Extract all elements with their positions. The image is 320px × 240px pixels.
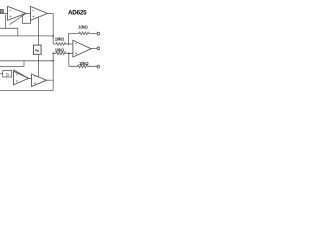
- terminal REF: [97, 65, 100, 68]
- terminal OUTPUT: [97, 47, 100, 50]
- bias box VB: [34, 45, 42, 54]
- wire reference riser: [68, 53, 70, 66]
- node junction dot A3 inverting: [68, 43, 70, 45]
- wire A3 output: [91, 48, 97, 50]
- resistor R3 10k sense feedback: [69, 32, 97, 35]
- wire vertical bus bottom: [52, 53, 54, 90]
- resistor input pin box bottom: [3, 71, 12, 78]
- terminal SENSE: [97, 32, 100, 35]
- wire input bottom: [0, 73, 3, 75]
- wire A1 to A2: [26, 12, 31, 14]
- wire B2 output: [47, 79, 54, 81]
- node junction dot top bus: [52, 35, 54, 37]
- buffer glyph in bottom box: [7, 73, 10, 76]
- node junction dot bus bottom wire: [52, 52, 54, 54]
- resistor R2 10k bottom input: [53, 52, 73, 55]
- node junction dot A3 noninverting: [68, 52, 70, 54]
- resistor R4 10k reference: [69, 65, 97, 68]
- svg-text:10kΩ: 10kΩ: [55, 47, 65, 52]
- node gain sense rail top: [0, 27, 18, 29]
- op-amp B1: [14, 71, 29, 85]
- op-amp input signs: [9, 11, 77, 84]
- op-amp A3: [73, 40, 91, 57]
- svg-text:VB: VB: [35, 49, 39, 53]
- svg-text:10kΩ: 10kΩ: [78, 25, 88, 30]
- node junction dot bottom bus: [52, 60, 54, 62]
- wire A1 inverting drop: [4, 15, 6, 29]
- wire A2 output to bus: [48, 14, 54, 45]
- wire feedback diagonal B1: [13, 70, 29, 79]
- wire VB riser bottom: [37, 54, 39, 76]
- wire feedback riser A3: [68, 33, 70, 44]
- op-amp A1: [8, 6, 26, 20]
- op-amp B2: [32, 74, 47, 87]
- wire jog bottom: [23, 61, 25, 67]
- wire VB riser top: [37, 17, 39, 45]
- node gain sense rail bottom: [0, 66, 24, 68]
- svg-text:10kΩ: 10kΩ: [55, 36, 65, 41]
- wire B1 to B2: [29, 77, 32, 79]
- node gain drive rail bottom: [0, 60, 53, 62]
- svg-text:AD625: AD625: [68, 10, 87, 17]
- resistor R1 10k top input: [53, 43, 73, 46]
- resistor input pin box top: [0, 10, 3, 13]
- wire jog: [17, 28, 19, 36]
- node bottom rail: [0, 90, 53, 92]
- wire input top: [0, 12, 8, 14]
- wire feedback diagonal A1: [10, 13, 27, 24]
- op-amp A2: [31, 6, 48, 20]
- svg-text:10kΩ: 10kΩ: [79, 61, 89, 66]
- wire A2 feedback hook: [23, 13, 31, 23]
- node gain drive rail top: [0, 35, 53, 37]
